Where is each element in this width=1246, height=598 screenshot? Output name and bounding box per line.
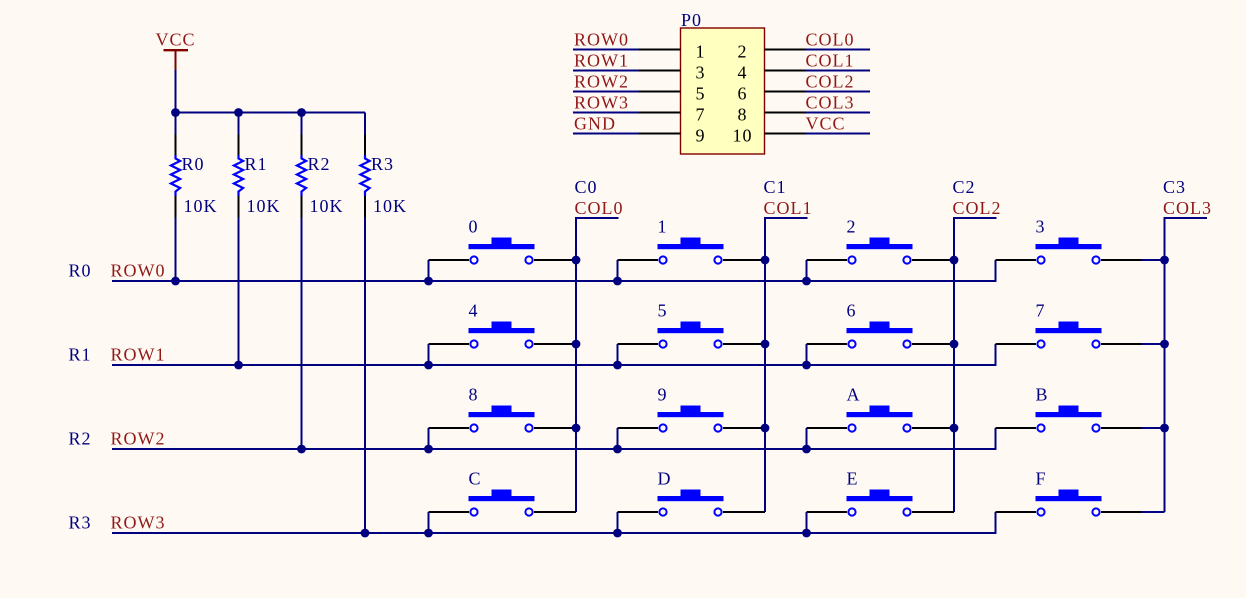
svg-text:ROW3: ROW3	[111, 513, 166, 533]
svg-text:6: 6	[738, 84, 748, 104]
svg-text:R2: R2	[69, 429, 92, 449]
pushbutton S3 key 3	[996, 217, 1165, 264]
wire key 5 hook to ROW1	[617, 344, 619, 365]
svg-text:4: 4	[469, 301, 479, 321]
junction key 0 on column C0	[572, 256, 581, 265]
junction key 6 on column C2	[950, 340, 959, 349]
junction on VCC bus at R2	[297, 108, 306, 117]
junction key 3 on column C3	[1160, 256, 1169, 265]
junction key C on ROW3	[424, 529, 433, 538]
svg-text:2: 2	[738, 42, 748, 62]
wire key E hook to ROW3	[806, 512, 808, 533]
wire VCC bus to R2	[301, 113, 303, 135]
wire net VCC at P0	[806, 133, 870, 135]
svg-text:E: E	[847, 469, 859, 489]
svg-text:COL0: COL0	[806, 30, 855, 50]
svg-text:0: 0	[469, 217, 479, 237]
junction key A on ROW2	[802, 445, 811, 454]
svg-text:5: 5	[696, 84, 706, 104]
pushbutton S9 key 9	[618, 385, 766, 432]
wire VCC stem	[175, 70, 177, 113]
junction key D on ROW3	[613, 529, 622, 538]
pin 10 of P0	[765, 133, 807, 135]
svg-text:COL1: COL1	[764, 198, 813, 218]
wire net COL2 at P0	[806, 91, 870, 93]
junction key 6 on ROW1	[802, 361, 811, 370]
junction R3 on ROW3 bus	[361, 529, 370, 538]
junction key 5 on ROW1	[613, 361, 622, 370]
svg-text:9: 9	[658, 385, 668, 405]
svg-text:COL3: COL3	[1163, 198, 1212, 218]
wire key B to column C3	[1142, 427, 1165, 429]
svg-text:D: D	[658, 469, 672, 489]
wire net COL0 at P0	[806, 49, 870, 51]
svg-text:R0: R0	[182, 154, 205, 174]
svg-text:ROW1: ROW1	[574, 51, 629, 71]
resistor R1 10K	[234, 135, 281, 218]
svg-text:ROW1: ROW1	[111, 345, 166, 365]
svg-text:10K: 10K	[373, 196, 407, 216]
svg-text:C1: C1	[764, 177, 787, 197]
junction on VCC bus at R1	[234, 108, 243, 117]
svg-text:COL3: COL3	[806, 93, 855, 113]
svg-text:3: 3	[696, 63, 706, 83]
svg-text:B: B	[1036, 385, 1049, 405]
wire R0 to ROW0 bus	[175, 218, 177, 282]
wire column C1	[765, 218, 808, 512]
resistor R2 10K	[297, 135, 344, 218]
pin 1 of P0	[639, 49, 681, 51]
svg-text:R2: R2	[308, 154, 331, 174]
junction key 9 on ROW2	[613, 445, 622, 454]
svg-text:R1: R1	[245, 154, 268, 174]
junction key E on ROW3	[802, 529, 811, 538]
wire net ROW0 at P0	[573, 49, 639, 51]
svg-text:7: 7	[696, 105, 706, 125]
svg-text:8: 8	[738, 105, 748, 125]
wire R2 to ROW2 bus	[301, 218, 303, 450]
svg-text:COL2: COL2	[953, 198, 1002, 218]
wire column C0	[576, 218, 619, 512]
junction key 9 on column C1	[761, 424, 770, 433]
wire net COL1 at P0	[806, 70, 870, 72]
wire key 0 hook to ROW0	[428, 260, 430, 281]
junction key 0 on ROW0	[424, 277, 433, 286]
pushbutton S5 key 5	[618, 301, 766, 348]
svg-text:9: 9	[696, 126, 706, 146]
pushbutton SE key E	[807, 469, 955, 516]
wire R3 to ROW3 bus	[364, 218, 366, 534]
svg-text:4: 4	[738, 63, 748, 83]
wire key C hook to ROW3	[428, 512, 430, 533]
svg-text:1: 1	[696, 42, 706, 62]
pin 6 of P0	[765, 91, 807, 93]
wire R1 to ROW1 bus	[238, 218, 240, 366]
svg-text:R1: R1	[69, 345, 92, 365]
svg-text:VCC: VCC	[155, 30, 195, 50]
svg-text:P0: P0	[681, 10, 702, 30]
wire net COL3 at P0	[806, 112, 870, 114]
svg-text:R0: R0	[69, 261, 92, 281]
wire net ROW2 at P0	[573, 91, 639, 93]
wire key 6 hook to ROW1	[806, 344, 808, 365]
wire key 2 hook to ROW0	[806, 260, 808, 281]
wire ROW2 bus	[112, 428, 996, 449]
wire key 3 to column C3	[1142, 259, 1165, 261]
wire VCC bus to R1	[238, 113, 240, 135]
wire VCC bus to R0	[175, 113, 177, 135]
svg-text:6: 6	[847, 301, 857, 321]
svg-text:10K: 10K	[247, 196, 281, 216]
pin 3 of P0	[639, 70, 681, 72]
pin 8 of P0	[765, 112, 807, 114]
junction R2 on ROW2 bus	[297, 445, 306, 454]
svg-text:F: F	[1036, 469, 1047, 489]
junction key 2 on ROW0	[802, 277, 811, 286]
svg-text:COL0: COL0	[575, 198, 624, 218]
svg-text:ROW2: ROW2	[574, 72, 629, 92]
junction key 1 on column C1	[761, 256, 770, 265]
pushbutton S0 key 0	[429, 217, 577, 264]
wire column C3	[1165, 218, 1208, 512]
svg-text:A: A	[847, 385, 861, 405]
power symbol VCC	[155, 30, 195, 71]
junction key 5 on column C1	[761, 340, 770, 349]
wire ROW0 bus	[112, 260, 996, 281]
svg-text:2: 2	[847, 217, 857, 237]
svg-text:GND: GND	[574, 114, 616, 134]
wire key F to column C3	[1142, 511, 1165, 513]
resistor R3 10K	[360, 135, 407, 218]
resistor R0 10K	[171, 135, 218, 218]
svg-text:ROW0: ROW0	[574, 30, 629, 50]
svg-text:C0: C0	[575, 177, 598, 197]
junction key 4 on ROW1	[424, 361, 433, 370]
svg-text:C: C	[469, 469, 482, 489]
pushbutton SD key D	[618, 469, 766, 516]
junction key 7 on column C3	[1160, 340, 1169, 349]
svg-text:VCC: VCC	[806, 114, 846, 134]
svg-text:COL1: COL1	[806, 51, 855, 71]
svg-text:COL2: COL2	[806, 72, 855, 92]
junction key 8 on ROW2	[424, 445, 433, 454]
wire net GND at P0	[573, 133, 639, 135]
pin 9 of P0	[639, 133, 681, 135]
junction key 2 on column C2	[950, 256, 959, 265]
pushbutton S7 key 7	[996, 301, 1165, 348]
wire VCC bus to R3	[364, 113, 366, 135]
pushbutton S4 key 4	[429, 301, 577, 348]
wire key 1 hook to ROW0	[617, 260, 619, 281]
pin 4 of P0	[765, 70, 807, 72]
wire VCC top bus	[176, 112, 366, 114]
svg-text:10K: 10K	[184, 196, 218, 216]
junction on VCC bus at R0	[171, 108, 180, 117]
svg-text:7: 7	[1036, 301, 1046, 321]
pushbutton S6 key 6	[807, 301, 955, 348]
svg-text:R3: R3	[69, 513, 92, 533]
pin 5 of P0	[639, 91, 681, 93]
wire net ROW3 at P0	[573, 112, 639, 114]
wire key 9 hook to ROW2	[617, 428, 619, 449]
pushbutton SA key A	[807, 385, 955, 432]
svg-text:10: 10	[733, 126, 753, 146]
svg-text:C3: C3	[1163, 177, 1186, 197]
wire ROW3 bus	[112, 512, 996, 533]
wire key A hook to ROW2	[806, 428, 808, 449]
pushbutton S8 key 8	[429, 385, 577, 432]
junction R0 on ROW0 bus	[171, 277, 180, 286]
pushbutton SF key F	[996, 469, 1165, 516]
wire key 7 to column C3	[1142, 343, 1165, 345]
svg-text:C2: C2	[953, 177, 976, 197]
pushbutton S1 key 1	[618, 217, 766, 264]
svg-text:8: 8	[469, 385, 479, 405]
wire ROW1 bus	[112, 344, 996, 365]
svg-text:1: 1	[658, 217, 668, 237]
svg-text:10K: 10K	[310, 196, 344, 216]
svg-text:ROW0: ROW0	[111, 261, 166, 281]
connector P0 body	[681, 28, 765, 154]
svg-text:R3: R3	[371, 154, 394, 174]
svg-text:ROW2: ROW2	[111, 429, 166, 449]
junction key 8 on column C0	[572, 424, 581, 433]
junction key B on column C3	[1160, 424, 1169, 433]
pin 7 of P0	[639, 112, 681, 114]
wire key 4 hook to ROW1	[428, 344, 430, 365]
pushbutton SC key C	[429, 469, 577, 516]
svg-text:5: 5	[658, 301, 668, 321]
pushbutton S2 key 2	[807, 217, 955, 264]
svg-text:3: 3	[1036, 217, 1046, 237]
pin 2 of P0	[765, 49, 807, 51]
junction R1 on ROW1 bus	[234, 361, 243, 370]
pushbutton SB key B	[996, 385, 1165, 432]
wire key 8 hook to ROW2	[428, 428, 430, 449]
svg-text:ROW3: ROW3	[574, 93, 629, 113]
junction key 4 on column C0	[572, 340, 581, 349]
wire key D hook to ROW3	[617, 512, 619, 533]
junction key 1 on ROW0	[613, 277, 622, 286]
junction key A on column C2	[950, 424, 959, 433]
wire column C2	[954, 218, 997, 512]
wire net ROW1 at P0	[573, 70, 639, 72]
